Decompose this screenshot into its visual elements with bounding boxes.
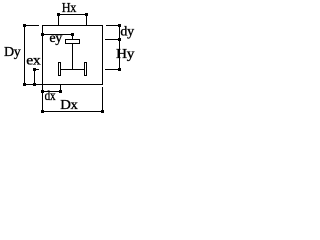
svg-text:ex: ex — [26, 53, 41, 68]
svg-text:Dy: Dy — [4, 45, 21, 60]
dimension Dx line — [41, 87, 104, 113]
svg-text:Hy: Hy — [116, 47, 135, 62]
svg-text:ey: ey — [49, 31, 62, 46]
dimension ex marker — [33, 68, 39, 86]
svg-text:dx: dx — [45, 88, 57, 103]
beam web horizontal — [61, 69, 84, 70]
svg-text:Hx: Hx — [62, 0, 77, 15]
dimension ey line — [41, 33, 74, 39]
beam top flange — [65, 39, 80, 44]
svg-text:dy: dy — [120, 25, 134, 40]
beam web vertical — [72, 44, 73, 69]
beam left flange bar — [58, 62, 61, 76]
dimension Dy line — [23, 24, 39, 86]
svg-text:Dx: Dx — [60, 97, 77, 113]
box outline (outer section Dx x Dy) — [24, 25, 103, 85]
beam right flange bar — [84, 62, 87, 76]
dimension dy / Hy vertical line right — [105, 24, 121, 71]
dimension dx line — [41, 85, 62, 111]
dimension Hx line — [57, 13, 88, 25]
